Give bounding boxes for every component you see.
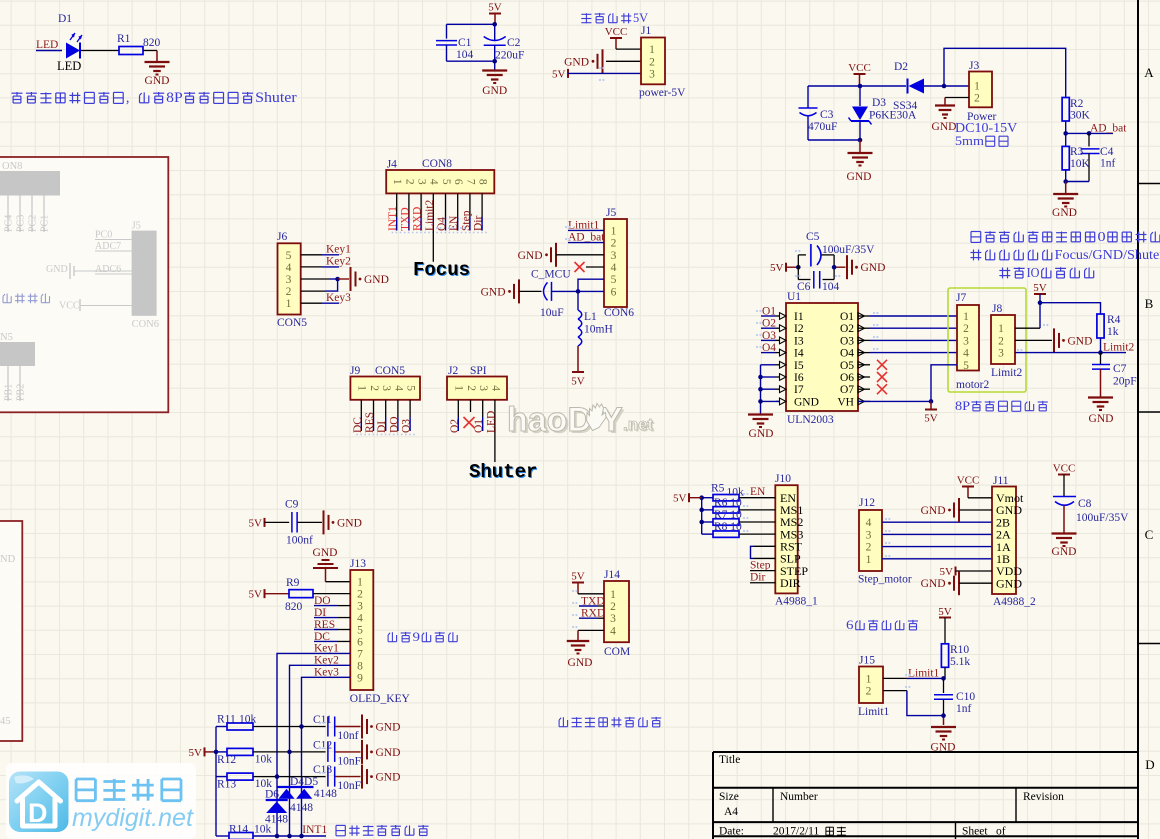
svg-text:R1: R1: [117, 33, 131, 45]
svg-text:100nf: 100nf: [286, 535, 313, 547]
svg-text:4: 4: [866, 517, 872, 529]
wire I5-I7 tie to GND: [760, 365, 762, 414]
svg-text:J8: J8: [992, 303, 1002, 315]
power port 5V side: [264, 518, 266, 527]
wire RST-SLP jumper: [753, 545, 775, 547]
svg-text:2: 2: [368, 385, 380, 391]
power port 5V down: [930, 401, 932, 409]
wire VH to 5V: [858, 400, 931, 402]
svg-text:VCC: VCC: [605, 26, 628, 38]
comment interrupt unused: [336, 824, 345, 826]
wire pin2 stub: [470, 400, 472, 412]
zone divider B/C: [1138, 411, 1160, 413]
svg-text:C5: C5: [806, 231, 820, 243]
selection marks: [392, 232, 487, 234]
resistor R12: [216, 751, 227, 753]
wire pin4 Shuter: [494, 400, 496, 462]
ground GND: [145, 61, 170, 63]
svg-text:4: 4: [489, 385, 501, 391]
svg-text:1: 1: [286, 298, 292, 310]
svg-text:5mm: 5mm: [955, 133, 984, 148]
wire: [968, 497, 992, 499]
comment hall sensor line3: [1002, 268, 1004, 279]
zone divider C/D: [1138, 643, 1160, 645]
wire: [314, 605, 338, 607]
svg-text:10k: 10k: [239, 714, 257, 726]
wire to battery divider: [944, 48, 1066, 97]
svg-text:I1: I1: [794, 311, 804, 323]
svg-text:R12: R12: [217, 754, 236, 766]
svg-text:L1: L1: [584, 311, 597, 323]
svg-text:CON5: CON5: [375, 365, 405, 377]
svg-text:ON8: ON8: [2, 161, 22, 172]
svg-text:1k: 1k: [1107, 326, 1119, 338]
wire: [335, 726, 361, 728]
comment annotation shutter usage: [12, 92, 23, 94]
wire O3 to J7 pin3: [870, 339, 957, 341]
svg-text:O4: O4: [436, 217, 448, 231]
svg-text:GND: GND: [518, 250, 543, 262]
svg-text:OLED_KEY: OLED_KEY: [350, 693, 411, 705]
svg-text:GND: GND: [46, 264, 68, 275]
wire: [326, 581, 351, 583]
svg-text:J7: J7: [956, 292, 966, 304]
svg-text:GND: GND: [482, 85, 507, 97]
svg-text:GND: GND: [1068, 335, 1093, 347]
svg-text:1: 1: [356, 385, 368, 391]
svg-text:C13: C13: [313, 764, 332, 776]
connector J2 SPI: [447, 377, 507, 400]
svg-text:J3: J3: [969, 60, 979, 72]
faded sheet block bottom-left: [0, 521, 22, 741]
svg-text:GND: GND: [376, 747, 401, 759]
svg-text:A4988_1: A4988_1: [775, 596, 818, 608]
svg-text:10nF: 10nF: [337, 755, 361, 767]
svg-text:7: 7: [357, 648, 363, 660]
wire 5V to rail: [205, 751, 217, 753]
svg-text:GND: GND: [568, 657, 593, 669]
wire: [335, 776, 361, 778]
wire Key2 down: [290, 665, 351, 836]
wire pin4 to GND: [578, 629, 604, 631]
svg-text:1nf: 1nf: [956, 703, 972, 715]
svg-text:J2: J2: [448, 365, 458, 377]
selection marks (misc): [319, 67, 1049, 774]
svg-text:R14: R14: [229, 824, 248, 836]
svg-text:5V: 5V: [571, 376, 585, 388]
wire: [335, 751, 361, 753]
connector J12 Step_motor: [859, 510, 882, 571]
svg-text:6: 6: [357, 636, 363, 648]
svg-text:J4: J4: [387, 159, 397, 171]
svg-text:8: 8: [357, 660, 363, 672]
svg-text:motor2: motor2: [956, 379, 989, 391]
svg-text:GND: GND: [364, 274, 389, 286]
svg-text:Step_motor: Step_motor: [858, 574, 912, 586]
svg-text:Key2: Key2: [326, 255, 351, 267]
svg-text:VCC: VCC: [848, 62, 871, 74]
connector J6 CON5: [278, 243, 301, 314]
svg-text:PC1: PC1: [40, 215, 51, 232]
svg-text:R3: R3: [1070, 146, 1084, 158]
LED D1: [66, 43, 80, 59]
svg-text:1nf: 1nf: [1100, 158, 1116, 170]
wire: [579, 617, 598, 619]
svg-text:AD_bat: AD_bat: [568, 232, 605, 244]
svg-text:4148: 4148: [290, 802, 313, 814]
wire: [313, 593, 350, 595]
svg-text:C: C: [1145, 527, 1154, 542]
wire pin stub: [432, 193, 434, 217]
svg-text:4: 4: [610, 625, 616, 637]
svg-text:GND: GND: [749, 428, 774, 440]
svg-text:mydigit.net: mydigit.net: [72, 804, 194, 832]
svg-text:C7: C7: [1113, 363, 1127, 375]
svg-text:3: 3: [357, 601, 363, 613]
svg-text:2: 2: [866, 686, 872, 698]
svg-text:GND: GND: [313, 547, 338, 559]
svg-text:GND: GND: [376, 772, 401, 784]
svg-text:Shuter: Shuter: [469, 461, 537, 483]
svg-text:J13: J13: [350, 558, 366, 570]
svg-text:C4: C4: [1100, 146, 1114, 158]
title block: [713, 751, 1138, 753]
wire pin stub: [408, 193, 410, 217]
capacitor C_MCU 10uF (polarized): [544, 282, 548, 300]
capacitor C5 100uF/35V: [810, 244, 812, 267]
capacitor C12: [327, 742, 329, 762]
svg-text:1: 1: [611, 225, 617, 237]
svg-text:PC2: PC2: [28, 215, 39, 232]
diode D6 4148: [266, 799, 288, 801]
svg-text:2: 2: [610, 601, 616, 613]
wire pin stub: [409, 400, 411, 417]
svg-text:.net: .net: [623, 415, 654, 434]
capacitor C8 100uF/35V (polarized): [1053, 496, 1076, 498]
connector J11 A4988_2: [992, 487, 1016, 595]
svg-text:Shuter: Shuter: [255, 90, 297, 106]
wire Limit1 net: [944, 667, 946, 678]
svg-text:Number: Number: [780, 791, 818, 803]
comment hall sensor line2: [973, 250, 975, 261]
svg-text:INT1: INT1: [302, 824, 327, 836]
ground GND: [931, 726, 956, 728]
wire: [568, 72, 641, 74]
svg-text:5: 5: [357, 625, 363, 637]
svg-text:C_MCU: C_MCU: [531, 269, 571, 281]
wire: [447, 23, 496, 25]
svg-text:D: D: [28, 798, 48, 828]
svg-text:Key3: Key3: [326, 292, 351, 304]
svg-text:1: 1: [453, 385, 465, 391]
svg-text:C3: C3: [820, 109, 834, 121]
svg-text:2: 2: [286, 286, 292, 298]
wire: [750, 570, 775, 572]
svg-text:3: 3: [610, 613, 616, 625]
svg-text:IO: IO: [1027, 266, 1040, 281]
svg-text:LED: LED: [57, 59, 81, 73]
svg-text:2017/2/11: 2017/2/11: [773, 826, 819, 838]
capacitor C10 1nf: [943, 678, 945, 693]
wire pin3 to GND: [301, 278, 330, 280]
svg-text:20pF: 20pF: [1113, 376, 1137, 388]
svg-text:GND: GND: [145, 75, 170, 87]
svg-text:COM: COM: [604, 646, 630, 658]
resistor R8: [713, 531, 739, 537]
ground GND: [748, 413, 773, 415]
wire pin2 jog: [301, 290, 325, 292]
svg-text:5: 5: [286, 250, 292, 262]
svg-text:D6: D6: [265, 789, 279, 801]
wire: [882, 521, 992, 523]
wire: [689, 497, 702, 499]
svg-text:U1: U1: [787, 291, 801, 303]
svg-text:GND: GND: [376, 722, 401, 734]
svg-text:D4D5: D4D5: [290, 776, 318, 788]
svg-text:10mH: 10mH: [584, 324, 613, 336]
svg-text:Limit1: Limit1: [908, 667, 940, 679]
svg-text:C10: C10: [956, 691, 975, 703]
ground GND power style: [323, 510, 325, 534]
wire Key1 down: [277, 653, 350, 836]
svg-text:5V: 5V: [633, 10, 649, 25]
svg-text:R11: R11: [217, 714, 236, 726]
svg-text:I6: I6: [794, 372, 804, 384]
svg-text:PB2: PB2: [16, 384, 27, 401]
svg-text:GND: GND: [794, 396, 819, 408]
svg-text:5V: 5V: [249, 517, 263, 529]
svg-text:5V: 5V: [552, 68, 566, 80]
svg-text:ADC6: ADC6: [95, 264, 121, 275]
no-connect pin4: [575, 262, 585, 272]
svg-text:PC4: PC4: [4, 215, 15, 232]
svg-text:LED: LED: [36, 39, 58, 51]
wire: [945, 97, 969, 99]
svg-text:R10: R10: [950, 644, 969, 656]
svg-text:RXD: RXD: [412, 207, 424, 231]
wire pin4 stub: [586, 266, 604, 268]
svg-text:5: 5: [611, 274, 617, 286]
highlight box 8P connector group: [948, 288, 1026, 392]
svg-text:GND: GND: [1089, 413, 1114, 425]
svg-text:4148: 4148: [314, 788, 337, 800]
svg-text:Title: Title: [719, 754, 740, 766]
capacitor C9 100nf: [265, 521, 290, 523]
svg-text:Limit2: Limit2: [1103, 342, 1135, 354]
svg-text:GND: GND: [337, 517, 362, 529]
watermark haoDY.net: [507, 401, 655, 441]
wire: [81, 50, 119, 52]
wire Key1: [301, 254, 322, 256]
svg-text:8: 8: [476, 179, 488, 185]
svg-text:DI: DI: [376, 421, 388, 433]
wire: [882, 558, 992, 560]
resistor R5: [713, 495, 739, 501]
svg-text:I7: I7: [794, 384, 804, 396]
svg-text:4: 4: [392, 385, 404, 391]
power port 5V side: [204, 747, 206, 756]
wire: [1065, 121, 1067, 146]
svg-text:Limit1: Limit1: [858, 706, 890, 718]
svg-text:4: 4: [357, 613, 363, 625]
wire: [606, 60, 641, 62]
wire pin stub: [360, 400, 362, 417]
svg-text:1: 1: [866, 554, 872, 566]
svg-text:Dir: Dir: [750, 572, 766, 584]
svg-text:O1: O1: [473, 419, 485, 433]
capacitor C11: [327, 717, 329, 737]
wire pin stub: [445, 193, 447, 217]
svg-text:GND: GND: [1052, 207, 1077, 219]
power port 5V side: [785, 263, 787, 272]
wire: [552, 290, 605, 292]
svg-text:ADC7: ADC7: [95, 241, 121, 252]
svg-text:Step: Step: [750, 559, 771, 571]
wire J8 pin1: [1015, 327, 1040, 329]
svg-text:GND: GND: [921, 578, 946, 590]
svg-text:R9: R9: [286, 577, 300, 589]
no-connect O7: [877, 384, 887, 394]
capacitor C1: [446, 24, 448, 38]
connector J15 Limit1: [859, 667, 883, 704]
diode D2 SS34: [909, 79, 925, 94]
svg-text:INT1: INT1: [387, 206, 399, 231]
wire: [143, 50, 157, 52]
wire Key3: [301, 302, 322, 304]
svg-text:Limit2: Limit2: [991, 367, 1023, 379]
svg-text:1: 1: [963, 311, 969, 323]
comment internal short 5V: [581, 13, 591, 15]
svg-text:100uF/35V: 100uF/35V: [1076, 512, 1129, 524]
svg-text:CON6: CON6: [132, 319, 159, 330]
svg-text:470uF: 470uF: [808, 121, 837, 133]
wire: [253, 776, 326, 778]
ground GND power style: [602, 49, 604, 73]
wire pin stub: [469, 193, 471, 217]
capacitor C2 (polarized): [494, 24, 496, 40]
svg-text:I4: I4: [794, 348, 804, 360]
svg-text:N5: N5: [0, 332, 13, 343]
resistor R6: [713, 507, 739, 513]
svg-text:10nf: 10nf: [337, 730, 358, 742]
connector J13 OLED_KEY: [350, 570, 373, 690]
svg-text:3: 3: [866, 529, 872, 541]
svg-text:Size: Size: [719, 791, 739, 803]
ground GND power style: [958, 498, 960, 522]
svg-text:5V: 5V: [940, 566, 954, 578]
svg-text:5V: 5V: [571, 571, 585, 583]
power port 5V: [489, 13, 501, 15]
svg-text:O3: O3: [401, 419, 413, 433]
svg-text:3: 3: [415, 179, 427, 185]
no-connect O5: [877, 360, 887, 370]
svg-text:2: 2: [403, 179, 415, 185]
svg-text:GND: GND: [996, 576, 1022, 590]
svg-text:45: 45: [0, 716, 11, 727]
wire: [616, 48, 641, 50]
svg-text:O3: O3: [840, 335, 854, 347]
resistor R13: [216, 776, 227, 778]
svg-text:7: 7: [464, 179, 476, 185]
svg-text:3: 3: [649, 68, 655, 80]
connector J9: [350, 377, 420, 400]
ground GND: [1088, 396, 1113, 398]
connector J3: [969, 72, 992, 108]
wire pin2 jog: [883, 690, 907, 692]
svg-text:VCC: VCC: [957, 475, 980, 487]
svg-text:J15: J15: [859, 655, 875, 667]
svg-text:,: ,: [126, 90, 130, 106]
svg-text:1: 1: [357, 577, 363, 589]
resistor R9 820: [265, 593, 290, 595]
connector J5 CON6: [604, 219, 627, 307]
svg-text:SPI: SPI: [470, 365, 487, 377]
svg-text:10k: 10k: [254, 824, 272, 836]
svg-text:VH: VH: [837, 396, 854, 408]
svg-text:R13: R13: [217, 779, 236, 791]
svg-text:EN: EN: [750, 486, 766, 498]
svg-text:J5: J5: [606, 207, 616, 219]
svg-text:J11: J11: [993, 475, 1009, 487]
junction: [1038, 300, 1043, 305]
svg-text:GND: GND: [932, 121, 957, 133]
svg-text:5V: 5V: [189, 747, 203, 759]
svg-text:220uF: 220uF: [495, 50, 524, 62]
power port 5V down: [577, 346, 579, 372]
svg-text:C1: C1: [458, 37, 472, 49]
svg-text:Focus/GND/Shuter: Focus/GND/Shuter: [1055, 248, 1160, 263]
wire: [253, 751, 326, 753]
svg-text:820: 820: [285, 601, 303, 613]
wire: [314, 640, 338, 642]
wire pin3 stub: [482, 400, 484, 417]
svg-text:5: 5: [963, 360, 969, 372]
wire: [1065, 170, 1067, 182]
comment hall sensor removed line1: [971, 231, 981, 233]
svg-text:C11: C11: [313, 714, 332, 726]
svg-text:1: 1: [866, 673, 872, 685]
svg-text:I5: I5: [794, 360, 804, 372]
svg-text:GND: GND: [847, 171, 872, 183]
svg-text:5V: 5V: [1033, 282, 1047, 294]
wire Key3 down: [302, 677, 351, 836]
svg-text:R7 10: R7 10: [714, 509, 742, 521]
capacitor C6 104: [813, 271, 815, 289]
svg-text:J6: J6: [277, 231, 287, 243]
svg-text:1: 1: [610, 589, 616, 601]
connector J14 COM: [604, 581, 629, 642]
svg-text:5V: 5V: [249, 589, 263, 601]
wire GND pin: [761, 400, 780, 402]
svg-text:O1: O1: [840, 311, 854, 323]
svg-text:R8 10: R8 10: [714, 521, 742, 533]
resistor R4: [1097, 314, 1104, 338]
selection marks: [356, 434, 415, 436]
svg-text:CON6: CON6: [604, 307, 634, 319]
wire pin stub: [481, 193, 483, 217]
svg-text:GND: GND: [861, 262, 886, 274]
svg-text:2: 2: [866, 542, 872, 554]
capacitor C3 470uF: [807, 86, 809, 108]
svg-text:Revision: Revision: [1023, 791, 1064, 803]
no-connect pin2: [464, 417, 475, 428]
svg-text:DIR: DIR: [780, 576, 801, 590]
svg-text:3: 3: [611, 250, 617, 262]
comment 9-wire leadout: [391, 632, 393, 642]
svg-text:CON8: CON8: [422, 158, 452, 170]
svg-text:104: 104: [456, 49, 474, 61]
svg-text:VCC: VCC: [1053, 463, 1076, 475]
